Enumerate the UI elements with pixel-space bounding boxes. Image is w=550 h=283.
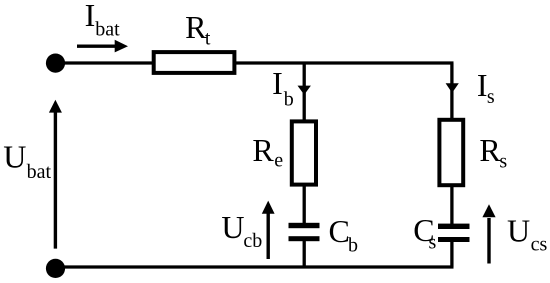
svg-text:s: s [487,86,495,108]
svg-text:R: R [479,132,501,168]
label Ubat [3,139,51,184]
svg-text:bat: bat [95,19,120,41]
capacitor Cs (bottom plate) [438,237,470,242]
svg-text:U: U [507,212,530,248]
wire: right branch, capacitor Cs bottom plate to bottom rail [450,241,453,267]
svg-text:b: b [284,89,294,111]
label Cb [329,213,359,257]
capacitor Cb (bottom plate) [289,236,320,241]
resistor Rs [439,120,463,185]
wire: middle branch, capacitor Cb bottom plate to bottom rail [303,241,306,268]
svg-text:C: C [329,213,350,249]
wire: top rail from + terminal to right branch [56,61,454,64]
label Rt [185,9,211,49]
current arrow Ibat [77,40,128,53]
svg-text:bat: bat [27,161,52,183]
svg-text:b: b [348,234,358,256]
label Cs [413,212,436,253]
node: battery negative terminal (dot) [46,259,65,278]
capacitor Cb (top plate) [289,223,320,228]
svg-text:R: R [185,9,207,45]
svg-text:U: U [3,139,26,175]
svg-text:t: t [205,28,211,50]
svg-text:e: e [274,149,283,171]
label Is [477,67,495,108]
label Ibat [85,0,120,41]
svg-text:I: I [272,65,283,101]
svg-text:U: U [221,209,244,245]
label Rs [479,132,507,173]
svg-text:cs: cs [531,233,548,255]
node: battery positive terminal (dot) [46,54,65,73]
current arrowhead Ib [298,86,311,95]
svg-text:R: R [252,132,274,168]
wire: right branch, top rail to capacitor Cs top plate [450,63,453,224]
wire: bottom rail from - terminal to right branch [56,265,454,268]
label Ucb [221,209,262,252]
svg-text:s: s [429,231,437,253]
label Ib [272,65,294,111]
voltage arrow Ucs [482,204,495,263]
svg-text:s: s [499,151,507,173]
voltage arrow Ucb [262,201,275,259]
voltage arrow Ubat [49,100,62,249]
label Ucs [507,212,547,255]
resistor Re [292,121,316,184]
svg-text:I: I [85,0,96,33]
label Re [252,132,283,172]
svg-text:cb: cb [243,230,262,252]
capacitor Cs (top plate) [438,224,470,229]
wire: middle branch, top rail to capacitor Cb top plate [303,63,306,224]
resistor Rt [154,52,235,73]
current arrowhead Is [446,83,459,93]
